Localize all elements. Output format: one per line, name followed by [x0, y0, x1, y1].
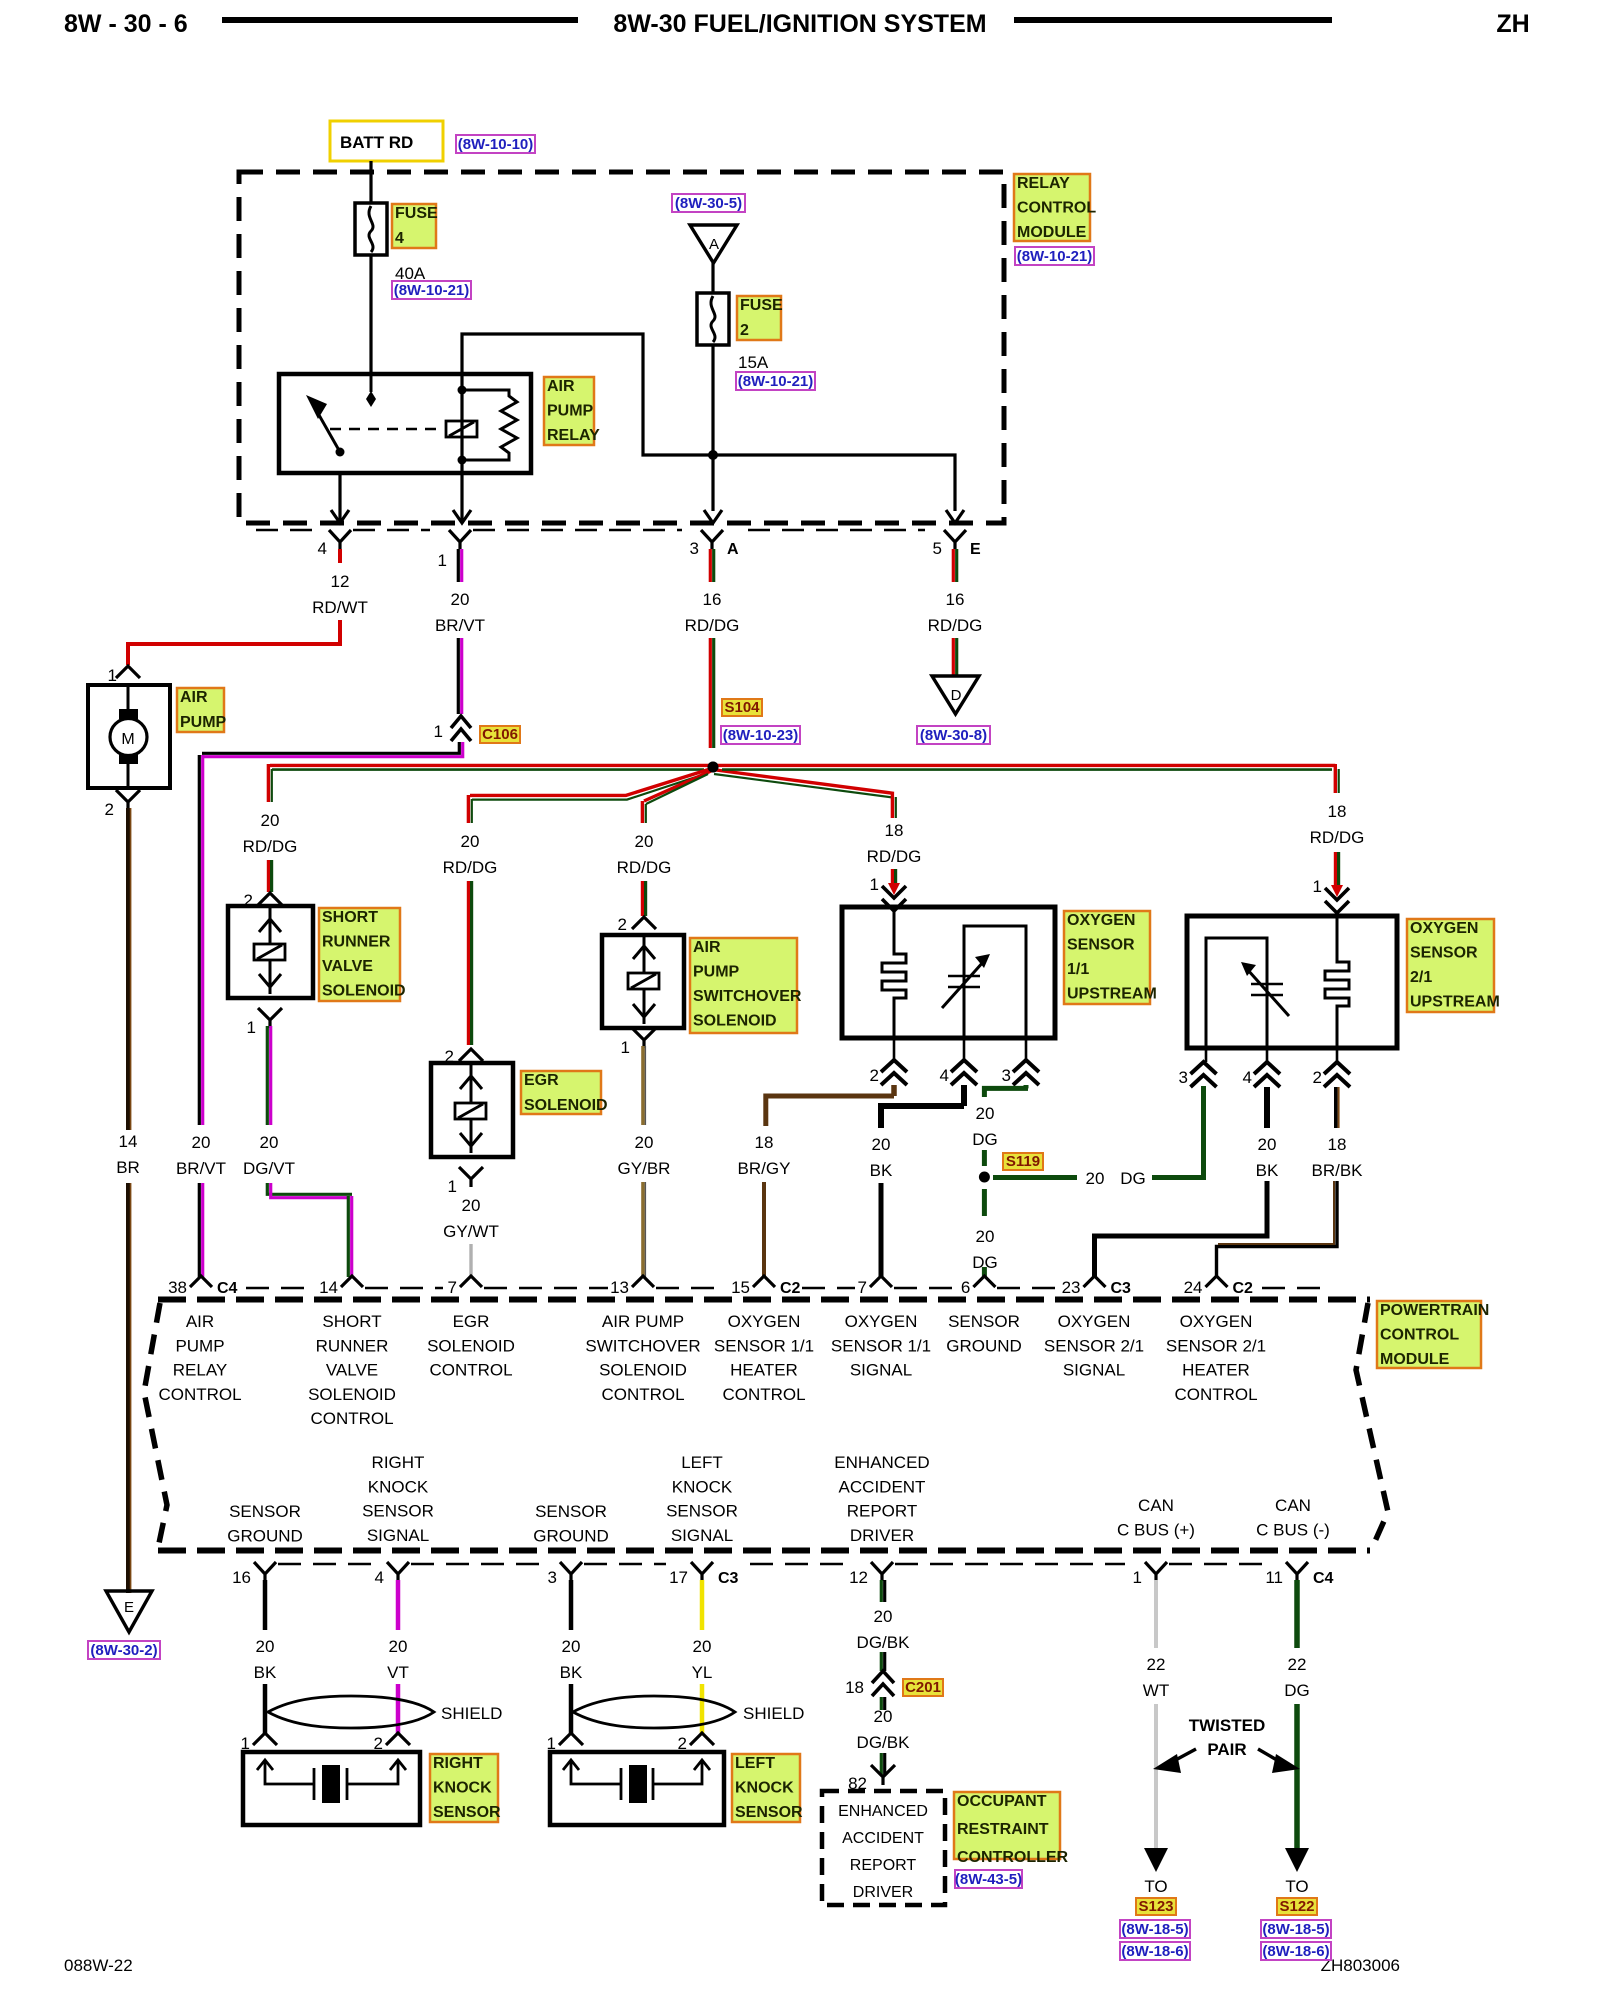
svg-text:(8W-18-6): (8W-18-6)	[1262, 1943, 1329, 1960]
right knock sensor label	[430, 1754, 498, 1822]
svg-text:ENHANCED: ENHANCED	[834, 1453, 929, 1472]
svg-text:KNOCK: KNOCK	[672, 1477, 733, 1496]
svg-text:SOLENOID: SOLENOID	[524, 1097, 608, 1114]
wire RD/DG to EGR pin2	[467, 881, 470, 1045]
O2 2/1 sense loop	[1206, 938, 1267, 1048]
svg-text:C BUS (-): C BUS (-)	[1256, 1520, 1330, 1539]
fuse 2 label	[737, 296, 781, 340]
connector C106	[451, 716, 471, 741]
svg-text:S122: S122	[1279, 1898, 1314, 1915]
svg-text:12: 12	[331, 572, 350, 591]
svg-text:RUNNER: RUNNER	[322, 934, 391, 951]
wire 20 YL to sensor	[700, 1684, 705, 1733]
svg-text:RELAY: RELAY	[1017, 175, 1070, 192]
wire BR to ground	[126, 1183, 130, 1593]
svg-text:HEATER: HEATER	[1182, 1361, 1250, 1380]
wire S104 diag to switchover stub	[644, 771, 711, 801]
svg-text:RUNNER: RUNNER	[316, 1336, 389, 1355]
svg-text:23: 23	[1062, 1278, 1081, 1297]
air pump switchover solenoid label	[690, 938, 797, 1033]
svg-text:SENSOR: SENSOR	[362, 1502, 434, 1521]
wire relay coil top loop to pin5	[462, 334, 955, 511]
link 8W-10-23	[721, 726, 800, 744]
relay switch arm	[315, 408, 340, 452]
wire RD/DG to splice	[709, 638, 712, 748]
svg-text:1: 1	[438, 551, 447, 570]
svg-text:20: 20	[461, 832, 480, 851]
relay output arrows into boundary	[338, 473, 341, 521]
link 8W-10-21 module	[1015, 247, 1094, 265]
svg-text:DG/VT: DG/VT	[243, 1159, 295, 1178]
wire DG down	[1294, 1704, 1300, 1852]
svg-text:DRIVER: DRIVER	[850, 1526, 914, 1545]
wire BR/VT jog left and down	[202, 742, 459, 753]
svg-text:DG/BK: DG/BK	[857, 1733, 911, 1752]
wire 14 BR down	[126, 808, 130, 1130]
wire RD/DG to SRV pin2	[267, 860, 270, 892]
PCM pin 24/C2 row1	[1206, 1276, 1228, 1287]
svg-text:7: 7	[858, 1278, 867, 1297]
svg-text:8W-30 FUEL/IGNITION SYSTEM: 8W-30 FUEL/IGNITION SYSTEM	[613, 10, 986, 38]
svg-text:KNOCK: KNOCK	[368, 1477, 429, 1496]
PCM connector bar row2	[278, 1563, 373, 1565]
svg-text:(8W-30-5): (8W-30-5)	[675, 195, 742, 212]
svg-text:DG: DG	[1284, 1681, 1310, 1700]
svg-text:S123: S123	[1138, 1898, 1173, 1915]
svg-text:4: 4	[940, 1066, 949, 1085]
svg-text:SIGNAL: SIGNAL	[671, 1526, 733, 1545]
svg-text:OXYGEN: OXYGEN	[845, 1312, 918, 1331]
link 8W-30-5	[672, 194, 745, 212]
O2 1/1 label	[1064, 911, 1150, 1004]
svg-text:SOLENOID: SOLENOID	[308, 1385, 396, 1404]
PCM pin 17/C3 row2	[691, 1562, 713, 1581]
relay pole diamond	[370, 374, 373, 392]
svg-text:(8W-18-6): (8W-18-6)	[1121, 1943, 1188, 1960]
left knock sensor box	[550, 1752, 724, 1825]
PCM pin 3 row2	[560, 1562, 582, 1581]
svg-text:22: 22	[1147, 1655, 1166, 1674]
svg-text:DRIVER: DRIVER	[853, 1884, 913, 1901]
svg-text:2/1: 2/1	[1410, 969, 1432, 986]
svg-text:(8W-18-5): (8W-18-5)	[1262, 1921, 1329, 1938]
link 8W-30-8	[917, 726, 990, 744]
svg-text:14: 14	[319, 1278, 338, 1297]
O2 1/1 pin 1 connector	[882, 886, 906, 911]
wire fuse4 to relay	[369, 255, 372, 374]
svg-text:SENSOR: SENSOR	[948, 1312, 1020, 1331]
wire 20 BK knock stub	[569, 1580, 574, 1630]
svg-text:GROUND: GROUND	[227, 1526, 303, 1545]
wire GY/BR to PCM pin13	[641, 1182, 645, 1277]
svg-text:20: 20	[389, 1637, 408, 1656]
relay control module dashed box	[239, 172, 1004, 523]
oxygen sensor 1/1 box	[842, 907, 1055, 1038]
wire A to fuse 2	[711, 263, 714, 294]
svg-text:FUSE: FUSE	[395, 205, 438, 222]
svg-text:1: 1	[434, 722, 443, 741]
left knock pin 1	[559, 1733, 583, 1745]
svg-text:20: 20	[462, 1196, 481, 1215]
svg-text:M: M	[121, 731, 134, 748]
svg-text:20: 20	[635, 832, 654, 851]
EGR pin 2	[459, 1049, 483, 1061]
svg-text:1: 1	[448, 1177, 457, 1196]
svg-text:POWERTRAIN: POWERTRAIN	[1380, 1302, 1489, 1319]
svg-text:BR/BK: BR/BK	[1311, 1161, 1363, 1180]
svg-text:CONTROLLER: CONTROLLER	[957, 1849, 1069, 1866]
switchover pin 2	[632, 917, 656, 929]
svg-text:EGR: EGR	[453, 1312, 490, 1331]
svg-text:RD/DG: RD/DG	[928, 616, 983, 635]
svg-text:C201: C201	[905, 1679, 941, 1696]
svg-text:OXYGEN: OXYGEN	[1067, 912, 1135, 929]
svg-text:BATT RD: BATT RD	[340, 133, 413, 152]
svg-text:SOLENOID: SOLENOID	[599, 1361, 687, 1380]
svg-text:4: 4	[375, 1568, 384, 1587]
air pump switchover solenoid box	[602, 935, 684, 1028]
wire DG/VT jog to PCM pin14	[267, 1183, 352, 1194]
air pump box	[88, 685, 170, 788]
svg-text:3: 3	[1002, 1066, 1011, 1085]
wire 20 VT to sensor	[396, 1684, 401, 1733]
svg-text:18: 18	[1328, 802, 1347, 821]
PCM boundary top	[158, 1297, 1370, 1303]
svg-text:20: 20	[192, 1133, 211, 1152]
PCM pin 7 row1	[460, 1276, 482, 1287]
connector C201	[872, 1671, 894, 1696]
link 8W-10-10	[456, 135, 535, 153]
PCM pin 23/C3 row1	[1084, 1276, 1106, 1287]
ORC label	[954, 1792, 1060, 1859]
svg-text:RD/DG: RD/DG	[617, 858, 672, 877]
svg-text:DG: DG	[972, 1130, 998, 1149]
wire 16 RD/DG stub	[709, 549, 712, 582]
svg-text:C2: C2	[780, 1280, 801, 1297]
svg-text:C BUS (+): C BUS (+)	[1117, 1520, 1195, 1539]
PCM pin 1 row2	[1145, 1562, 1167, 1581]
air pump motor	[127, 685, 130, 712]
svg-text:20: 20	[635, 1133, 654, 1152]
svg-text:CAN: CAN	[1275, 1496, 1311, 1515]
svg-text:18: 18	[1328, 1135, 1347, 1154]
O2 1/1 pin 4	[963, 1038, 966, 1060]
svg-text:KNOCK: KNOCK	[735, 1780, 794, 1797]
svg-text:20: 20	[562, 1637, 581, 1656]
svg-text:SENSOR 1/1: SENSOR 1/1	[831, 1336, 931, 1355]
svg-text:20: 20	[693, 1637, 712, 1656]
svg-text:1: 1	[1313, 877, 1322, 896]
O2 1/1 pin 2	[893, 1038, 896, 1060]
svg-text:VALVE: VALVE	[322, 958, 373, 975]
svg-text:AIR: AIR	[180, 689, 208, 706]
air pump pin 1	[116, 666, 140, 678]
wire 20 VT knock stub	[396, 1580, 401, 1630]
svg-text:(8W-30-2): (8W-30-2)	[90, 1642, 157, 1659]
svg-text:RD/DG: RD/DG	[685, 616, 740, 635]
svg-text:5: 5	[933, 539, 942, 558]
svg-text:SOLENOID: SOLENOID	[693, 1013, 777, 1030]
svg-text:LEFT: LEFT	[681, 1453, 723, 1472]
svg-text:24: 24	[1184, 1278, 1203, 1297]
wire fuse2 to pin3	[711, 345, 714, 511]
O2 2/1 pin 1 connector	[1325, 888, 1349, 913]
svg-text:SENSOR 1/1: SENSOR 1/1	[714, 1336, 814, 1355]
wire S104 diag to EGR branch	[470, 769, 710, 795]
air pump relay label	[544, 377, 594, 445]
right knock pin 2	[386, 1733, 410, 1745]
svg-text:RESTRAINT: RESTRAINT	[957, 1821, 1049, 1838]
left knock shield	[573, 1696, 735, 1728]
svg-text:(8W-18-5): (8W-18-5)	[1121, 1921, 1188, 1938]
wire 18 BR/GY from O2 1/1 pin2	[891, 1085, 897, 1096]
svg-text:11: 11	[1265, 1568, 1283, 1587]
svg-text:AIR: AIR	[547, 378, 575, 395]
svg-text:CONTROL: CONTROL	[1017, 200, 1096, 217]
svg-text:C106: C106	[482, 726, 518, 743]
wire 20 BK to sensor	[263, 1684, 268, 1733]
PCM pin 16 row2	[254, 1562, 276, 1581]
wire 20 GY/BR down	[641, 1046, 645, 1125]
svg-text:CONTROL: CONTROL	[429, 1361, 512, 1380]
PCM right dashed edge	[1356, 1303, 1388, 1548]
svg-text:OXYGEN: OXYGEN	[728, 1312, 801, 1331]
svg-text:FUSE: FUSE	[740, 297, 783, 314]
O2 1/1 sense loop	[964, 926, 1026, 1038]
svg-text:BK: BK	[560, 1663, 583, 1682]
svg-text:18: 18	[845, 1678, 864, 1697]
occupant restraint controller dashed box	[822, 1791, 945, 1905]
O2 2/1 variable arrow	[1251, 983, 1283, 986]
pin 3 relay	[701, 530, 723, 549]
svg-text:BK: BK	[254, 1663, 277, 1682]
svg-text:C3: C3	[718, 1570, 739, 1587]
O2 1/1 variable arrow	[948, 975, 980, 978]
svg-text:LEFT: LEFT	[735, 1755, 775, 1772]
O2 1/1 pin 3	[1025, 1038, 1028, 1060]
svg-text:RD/DG: RD/DG	[243, 837, 298, 856]
PCM boundary bottom	[158, 1548, 1370, 1554]
svg-text:1: 1	[108, 666, 117, 685]
wire 20 BK from O2 2/1 pin4	[1264, 1087, 1270, 1128]
left knock sensor label	[732, 1754, 800, 1822]
svg-text:22: 22	[1288, 1655, 1307, 1674]
left knock pin 2	[690, 1733, 714, 1745]
svg-text:GY/WT: GY/WT	[443, 1222, 499, 1241]
svg-text:AIR PUMP: AIR PUMP	[602, 1312, 684, 1331]
svg-text:SENSOR: SENSOR	[666, 1502, 738, 1521]
svg-text:CONTROL: CONTROL	[1174, 1385, 1257, 1404]
PCM pin 11/C4 row2	[1286, 1562, 1308, 1581]
svg-text:3: 3	[548, 1568, 557, 1587]
svg-text:16: 16	[703, 590, 722, 609]
svg-text:2: 2	[105, 800, 114, 819]
wire BR/GY to PCM pin15	[762, 1182, 766, 1277]
svg-text:SOLENOID: SOLENOID	[322, 983, 406, 1000]
O2 2/1 label	[1407, 919, 1494, 1012]
svg-text:KNOCK: KNOCK	[433, 1780, 492, 1797]
wire DG below splice	[982, 1189, 987, 1216]
svg-text:SHIELD: SHIELD	[441, 1704, 502, 1723]
relay coil feed wire	[460, 374, 463, 473]
svg-text:SHIELD: SHIELD	[743, 1704, 804, 1723]
PCM pin 12 row2	[871, 1562, 893, 1581]
svg-text:7: 7	[448, 1278, 457, 1297]
svg-text:RD/DG: RD/DG	[443, 858, 498, 877]
svg-text:088W-22: 088W-22	[64, 1956, 133, 1975]
svg-text:UPSTREAM: UPSTREAM	[1067, 986, 1157, 1003]
O2 2/1 pin 2	[1336, 1048, 1339, 1062]
connector triangle D	[932, 676, 979, 714]
svg-text:OXYGEN: OXYGEN	[1058, 1312, 1131, 1331]
PCM pin 7 row1	[870, 1276, 892, 1287]
pin 5 relay	[944, 530, 966, 549]
svg-text:18: 18	[885, 821, 904, 840]
svg-text:PAIR: PAIR	[1207, 1740, 1246, 1759]
wire RD/DG to switchover pin2	[641, 881, 644, 916]
svg-text:8W - 30 - 6: 8W - 30 - 6	[64, 10, 188, 38]
link 8W-10-21 fuse2	[736, 372, 815, 390]
O2 2/1 pin 4	[1266, 1048, 1269, 1062]
svg-text:SWITCHOVER: SWITCHOVER	[693, 988, 802, 1005]
svg-text:6: 6	[961, 1278, 970, 1297]
oxygen sensor 2/1 box	[1187, 916, 1397, 1048]
svg-text:20: 20	[451, 590, 470, 609]
svg-text:3: 3	[690, 539, 699, 558]
link 8W-30-2	[88, 1641, 160, 1659]
svg-text:ENHANCED: ENHANCED	[838, 1803, 928, 1820]
junction fuse2/coil-return	[708, 450, 718, 460]
svg-text:SIGNAL: SIGNAL	[367, 1526, 429, 1545]
wire 22 WT stub	[1154, 1580, 1158, 1648]
svg-text:SHORT: SHORT	[322, 1312, 381, 1331]
PCM pin 15/C2 row1	[753, 1276, 775, 1287]
svg-text:RELAY: RELAY	[547, 427, 600, 444]
header rule left	[222, 17, 578, 23]
link 8W-43-5	[955, 1870, 1022, 1888]
svg-text:SENSOR: SENSOR	[433, 1804, 501, 1821]
O2 1/1 heater element	[882, 907, 906, 1038]
svg-text:20: 20	[874, 1707, 893, 1726]
EGR solenoid box	[431, 1063, 513, 1157]
short runner valve solenoid box	[228, 906, 313, 998]
wire 12 RD/WT stub	[338, 549, 342, 563]
svg-text:2: 2	[1313, 1068, 1322, 1087]
svg-text:2: 2	[870, 1066, 879, 1085]
svg-text:20: 20	[976, 1104, 995, 1123]
PCM pin 6 row1	[973, 1276, 995, 1287]
svg-text:PUMP: PUMP	[693, 964, 740, 981]
right knock sensor box	[243, 1752, 420, 1825]
svg-text:ZH: ZH	[1496, 10, 1529, 38]
svg-text:3: 3	[1179, 1068, 1188, 1087]
wire BR/VT to C106	[457, 638, 460, 714]
node BATT RD feed box	[330, 121, 443, 161]
svg-text:(8W-43-5): (8W-43-5)	[955, 1871, 1022, 1888]
svg-text:1: 1	[247, 1018, 256, 1037]
svg-text:SENSOR 2/1: SENSOR 2/1	[1044, 1336, 1144, 1355]
wire 20 BR/VT stub	[457, 549, 460, 582]
svg-text:SIGNAL: SIGNAL	[850, 1361, 912, 1380]
svg-text:EGR: EGR	[524, 1072, 559, 1089]
svg-text:15A: 15A	[738, 353, 769, 372]
wire BK to PCM pin23	[1095, 1181, 1268, 1277]
wire S119 to O2 2/1 pin3	[993, 1175, 1077, 1180]
svg-text:VT: VT	[387, 1663, 409, 1682]
splice S119	[982, 1150, 987, 1166]
pin 1 relay	[449, 530, 471, 549]
wire 20 DG from O2 1/1 pin3	[1024, 1085, 1029, 1088]
link 8W-10-21 fuse4	[392, 281, 471, 299]
svg-text:YL: YL	[692, 1663, 713, 1682]
svg-text:38: 38	[168, 1278, 187, 1297]
relay resistor	[462, 390, 517, 460]
EGR solenoid label	[521, 1071, 601, 1114]
short runner valve solenoid label	[319, 908, 400, 1001]
svg-text:C4: C4	[1313, 1570, 1334, 1587]
svg-text:TO: TO	[1144, 1877, 1167, 1896]
wire GY/WT to PCM pin7	[469, 1244, 472, 1277]
PCM left dashed edge	[144, 1303, 167, 1548]
svg-text:GROUND: GROUND	[946, 1336, 1022, 1355]
svg-text:AIR: AIR	[693, 939, 721, 956]
svg-text:CONTROL: CONTROL	[722, 1385, 805, 1404]
svg-text:REPORT: REPORT	[850, 1857, 917, 1874]
relay actuate dashed link	[330, 428, 444, 431]
svg-text:18: 18	[755, 1133, 774, 1152]
relay module connector bar	[256, 529, 312, 531]
svg-text:RD/DG: RD/DG	[867, 847, 922, 866]
svg-text:(8W-30-8): (8W-30-8)	[920, 727, 987, 744]
svg-text:BK: BK	[870, 1161, 893, 1180]
ground triangle E	[106, 1591, 152, 1632]
svg-text:SENSOR: SENSOR	[735, 1804, 803, 1821]
wire WT down	[1154, 1704, 1158, 1852]
pin 4 relay	[329, 530, 351, 549]
svg-text:1: 1	[1133, 1568, 1142, 1587]
svg-text:CONTROL: CONTROL	[601, 1385, 684, 1404]
air pump label	[177, 688, 224, 732]
svg-text:A: A	[709, 236, 719, 253]
relay coil symbol	[446, 421, 477, 437]
header rule right	[1014, 17, 1332, 23]
svg-text:ZH803006: ZH803006	[1321, 1956, 1400, 1975]
svg-text:2: 2	[618, 915, 627, 934]
svg-text:WT: WT	[1143, 1681, 1169, 1700]
svg-text:20: 20	[261, 811, 280, 830]
svg-text:SENSOR 2/1: SENSOR 2/1	[1166, 1336, 1266, 1355]
svg-text:ACCIDENT: ACCIDENT	[842, 1830, 924, 1847]
O2 2/1 heater element	[1325, 916, 1349, 1048]
wire 20 BK from O2 1/1 pin4	[961, 1085, 967, 1106]
svg-text:RIGHT: RIGHT	[372, 1453, 425, 1472]
svg-text:REPORT: REPORT	[847, 1502, 918, 1521]
PCM label	[1377, 1301, 1481, 1368]
svg-text:20: 20	[872, 1135, 891, 1154]
svg-text:HEATER: HEATER	[730, 1361, 798, 1380]
svg-text:A: A	[727, 541, 739, 558]
svg-text:SENSOR: SENSOR	[1067, 937, 1135, 954]
svg-text:CONTROL: CONTROL	[310, 1409, 393, 1428]
svg-text:RD/DG: RD/DG	[1310, 828, 1365, 847]
wire 22 DG stub	[1294, 1580, 1300, 1648]
fuse 4 label	[392, 204, 436, 248]
svg-text:13: 13	[610, 1278, 629, 1297]
right knock shield	[268, 1696, 434, 1728]
svg-text:RD/WT: RD/WT	[312, 598, 368, 617]
svg-text:20: 20	[976, 1227, 995, 1246]
wire 20 BK to sensor	[569, 1684, 574, 1733]
